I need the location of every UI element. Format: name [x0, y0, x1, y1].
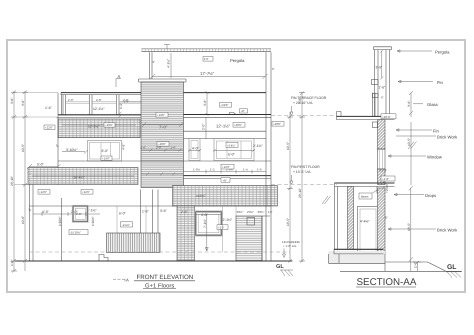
balcony opening extension lines — [117, 206, 146, 233]
interior left wall hatched — [348, 186, 354, 249]
svg-text:23'-10": 23'-10" — [298, 188, 302, 198]
break mark on section dim line — [408, 142, 417, 150]
extension line parapet left — [14, 93, 58, 261]
svg-text:13'-5": 13'-5" — [407, 223, 411, 231]
svg-text:4'-4½": 4'-4½" — [360, 220, 370, 224]
parking dashed level line — [29, 251, 290, 253]
sheet border frame — [7, 40, 465, 292]
svg-text:10'-5": 10'-5" — [21, 144, 25, 152]
terrace slab right — [184, 114, 272, 116]
svg-text:+12'6": +12'6" — [82, 190, 90, 194]
svg-text:12'-1½": 12'-1½" — [88, 124, 100, 128]
section cut marker A (top) — [116, 79, 121, 88]
svg-text:5'-0": 5'-0" — [37, 163, 45, 167]
svg-text:SECTION-AA: SECTION-AA — [357, 277, 417, 288]
tower level box +19 — [156, 113, 168, 118]
svg-text:9": 9" — [153, 60, 156, 64]
fin below slab — [373, 122, 378, 128]
section door — [358, 207, 379, 253]
svg-text:A: A — [118, 74, 121, 79]
svg-text:+2'0": +2'0" — [218, 226, 224, 230]
porch columns below tower — [141, 190, 159, 234]
antenna mark above beam — [164, 45, 170, 50]
dim 5'-0 left — [27, 164, 61, 169]
upper brick band left — [58, 119, 140, 138]
garage shutter — [236, 216, 262, 261]
svg-text:13'-5": 13'-5" — [286, 218, 290, 226]
first floor window left — [88, 141, 122, 162]
right wall of elevation — [266, 52, 271, 261]
svg-text:1'-0½: 1'-0½ — [193, 168, 201, 172]
svg-text:1'-6": 1'-6" — [414, 262, 418, 268]
centre brick band over entrance — [173, 186, 278, 207]
svg-text:-16'-4¼": -16'-4¼" — [72, 176, 85, 180]
svg-text:9": 9" — [56, 144, 60, 147]
first floor slab (section) — [335, 182, 395, 184]
svg-text:+8": +8" — [241, 109, 245, 113]
leader label Window — [388, 155, 426, 158]
svg-text:1'6": 1'6" — [268, 210, 273, 214]
svg-text:2'-0": 2'-0" — [202, 124, 206, 130]
terrace slab left — [58, 114, 141, 116]
boxed label left edge of band — [44, 125, 55, 129]
level box -15'10 — [69, 230, 88, 235]
first floor slab right — [184, 175, 272, 177]
svg-text:1'6": 1'6" — [204, 57, 209, 61]
tower level box +20 — [157, 142, 169, 147]
mid band boxed labels — [38, 190, 50, 195]
right terrace band dim 12'-1 1/2 — [205, 117, 207, 138]
svg-text:1'-2: 1'-2 — [210, 168, 215, 172]
middle dimension line a — [287, 112, 293, 263]
svg-text:+22'0": +22'0" — [221, 103, 229, 107]
svg-text:3'0½": 3'0½" — [237, 210, 244, 214]
ground dim row — [33, 212, 100, 216]
left ground wall — [30, 185, 62, 262]
wall fin 2 — [373, 94, 379, 98]
svg-text:6'-0": 6'-0" — [228, 153, 236, 157]
svg-text:Fin: Fin — [437, 80, 443, 85]
svg-text:Pergola: Pergola — [435, 50, 450, 55]
svg-text:4'-1½": 4'-1½" — [167, 59, 171, 68]
svg-text:2'-0": 2'-0" — [96, 98, 102, 102]
wall inner dim 3'-0 — [380, 50, 383, 80]
svg-text:1'-6": 1'-6" — [142, 210, 150, 214]
svg-text:9": 9" — [272, 67, 275, 71]
ground floor lintel line — [29, 205, 271, 207]
svg-text:4'-0": 4'-0" — [201, 213, 209, 217]
svg-text:1'-6": 1'-6" — [379, 86, 387, 90]
first floor window right A — [189, 139, 200, 161]
GL hatch section — [446, 272, 461, 278]
svg-text:9": 9" — [28, 208, 32, 211]
GL hatch elevation — [280, 270, 293, 276]
svg-text:Drops: Drops — [425, 193, 436, 198]
svg-text:2'-1½": 2'-1½" — [223, 218, 233, 222]
level box +2'0 — [381, 176, 395, 181]
svg-text:12'-1½": 12'-1½" — [216, 124, 231, 129]
svg-text:3'-0": 3'-0" — [376, 66, 384, 70]
tower pane dim row 2'-6 2'-0 2'-6 — [142, 149, 184, 152]
first floor left wall edges — [58, 93, 62, 185]
svg-text:17'-7½": 17'-7½" — [200, 71, 215, 76]
svg-text:FIN.TERRACE FLOOR: FIN.TERRACE FLOOR — [291, 96, 327, 100]
slab drop profile — [230, 113, 237, 115]
leader label Glass — [413, 103, 423, 105]
svg-text:3'0¾": 3'0¾" — [258, 210, 265, 214]
wall below terrace hatched — [378, 120, 386, 150]
svg-text:23'-10": 23'-10" — [10, 176, 14, 186]
sill line full width — [58, 160, 271, 162]
svg-text:4'-0": 4'-0" — [192, 147, 200, 151]
ground small window — [73, 206, 88, 222]
leader label Drops — [394, 193, 424, 196]
leader label Brick Work 2 — [388, 228, 436, 231]
boxed level label near pergola — [203, 57, 213, 62]
svg-text:1'-6": 1'-6" — [45, 106, 53, 110]
section pergola bar — [374, 47, 392, 50]
window dim 3'-10 1/2 — [62, 150, 88, 154]
svg-text:1'10½": 1'10½" — [91, 216, 95, 226]
terrace slab (section) — [337, 115, 395, 117]
natural ground line — [340, 270, 462, 272]
tower dim 7'-0 — [142, 123, 183, 128]
left outer dimension line — [11, 91, 17, 273]
right wall ground floor hatched — [378, 188, 386, 254]
parking level line — [385, 261, 428, 263]
svg-text:+2'-0": +2'-0" — [382, 177, 389, 181]
svg-text:Brick Work: Brick Work — [437, 228, 458, 233]
svg-text:x16⅛": x16⅛" — [196, 194, 206, 198]
section marker A (bottom) — [113, 279, 125, 281]
right terrace parapet dim — [206, 91, 209, 116]
svg-text:FRONT ELEVATION: FRONT ELEVATION — [137, 274, 194, 281]
svg-text:+ 23'-10" LVL: + 23'-10" LVL — [293, 101, 313, 105]
first floor window right B — [214, 139, 254, 161]
section wall upper (terrace floor parapet wall) — [375, 50, 390, 117]
svg-text:6'-0": 6'-0" — [119, 212, 127, 216]
svg-text:FIN.FIRST FLOOR: FIN.FIRST FLOOR — [291, 165, 320, 169]
svg-text:2'-0": 2'-0" — [68, 98, 74, 102]
svg-text:GL: GL — [276, 264, 284, 270]
left brick pillar ground — [177, 206, 195, 261]
tower striped cladding — [141, 82, 184, 188]
svg-text:1'-9": 1'-9" — [119, 103, 123, 109]
svg-text:Glass: Glass — [427, 102, 438, 107]
pergola left post — [150, 52, 153, 79]
tower cap — [139, 79, 187, 82]
svg-text:1'-9": 1'-9" — [124, 100, 130, 104]
svg-text:4'-3": 4'-3" — [42, 210, 50, 214]
beam under slab — [359, 193, 372, 199]
leader label Fin 1 — [398, 80, 433, 83]
svg-text:-4'4½": -4'4½" — [122, 223, 130, 227]
dim 13'-5 — [409, 186, 413, 271]
svg-text:Fin: Fin — [433, 129, 439, 134]
garage vent — [247, 218, 255, 226]
right parapet top rail — [184, 92, 267, 94]
pergola rafter ticks — [142, 49, 270, 52]
svg-text:-15'10½": -15'10½" — [70, 231, 81, 235]
svg-text:+14'6": +14'6" — [102, 157, 110, 161]
svg-text:2'-0": 2'-0" — [76, 212, 82, 216]
svg-text:Window: Window — [427, 155, 443, 160]
window head line right part — [184, 131, 267, 138]
plinth step — [329, 254, 386, 263]
svg-text:3'-10½": 3'-10½" — [66, 148, 78, 152]
balcony railing — [107, 233, 161, 253]
svg-text:+20'6": +20'6" — [105, 123, 113, 127]
svg-text:GL: GL — [447, 264, 456, 271]
svg-text:+22'6": +22'6" — [45, 126, 53, 130]
svg-text:Brick Work: Brick Work — [437, 135, 458, 140]
svg-text:+20'6": +20'6" — [234, 123, 242, 127]
svg-text:+20'0": +20'0" — [273, 122, 281, 126]
svg-text:3'-6": 3'-6" — [160, 209, 168, 213]
svg-text:2'0½": 2'0½" — [247, 210, 254, 214]
section interior left end wall — [335, 186, 338, 249]
dim 1'-6 at plinth — [413, 261, 421, 271]
svg-text:+12'6": +12'6" — [39, 190, 47, 194]
chhajja brick band — [28, 168, 138, 185]
svg-text:+20'-0": +20'-0" — [382, 115, 391, 119]
pergola beam (front elevation) — [142, 49, 272, 52]
svg-text:10'-5": 10'-5" — [286, 142, 290, 150]
svg-text:1'-6": 1'-6" — [10, 260, 14, 266]
glass railing of terrace (section) — [373, 93, 376, 117]
svg-text:+19'0": +19'0" — [157, 113, 165, 117]
svg-text:A: A — [126, 278, 129, 283]
left parapet posts — [63, 95, 119, 115]
svg-text:7'-1½": 7'-1½" — [203, 219, 207, 228]
svg-text:12'-1½": 12'-1½" — [93, 107, 105, 111]
svg-text:7'-0": 7'-0" — [159, 125, 168, 130]
svg-text:2'-6": 2'-6" — [171, 146, 177, 150]
first floor dashed level — [271, 183, 337, 185]
glass height dim 3'-6 — [409, 91, 413, 117]
svg-text:1'10½": 1'10½" — [58, 216, 62, 226]
svg-text:+8": +8" — [223, 178, 227, 182]
svg-text:6'-0": 6'-0" — [102, 149, 110, 153]
plinth fill — [329, 251, 386, 263]
svg-text:2'-1½": 2'-1½" — [253, 144, 263, 148]
leader label Brick Work 1 — [396, 135, 436, 137]
svg-text:+2'0½": +2'0½" — [385, 183, 389, 193]
svg-text:1'-4: 1'-4 — [243, 168, 248, 172]
leader label Pergola (section) — [397, 50, 432, 53]
elevation right level box — [272, 122, 284, 127]
ground slope — [428, 262, 447, 271]
dim 17'-7 1/2 line — [150, 74, 268, 79]
svg-text:10'-5": 10'-5" — [407, 138, 411, 146]
left parapet top rail — [61, 92, 141, 94]
dim 4'-1 1/2 vertical by tower — [170, 53, 172, 78]
svg-text:+12'6": +12'6" — [222, 165, 230, 169]
break mark between views — [322, 196, 331, 204]
svg-text:+5'4½": +5'4½" — [227, 143, 236, 147]
wall below window hatched — [378, 169, 386, 185]
svg-text:9"1'-3": 9"1'-3" — [379, 169, 387, 173]
ground line GL — [15, 260, 292, 262]
svg-text:3'-6": 3'-6" — [407, 101, 411, 107]
plinth right face — [384, 254, 386, 271]
right band dim row — [184, 170, 267, 174]
floor slab of section — [334, 248, 384, 250]
middle dimension line b — [299, 92, 305, 263]
beam drop profile — [377, 186, 384, 198]
ground floor window over parking — [196, 212, 222, 236]
dim 10'-5 right of wall — [410, 122, 412, 185]
svg-text:9": 9" — [381, 96, 384, 100]
svg-text:Pergola: Pergola — [230, 58, 245, 63]
brick band dim text — [62, 124, 136, 126]
left inner dimension line — [22, 91, 28, 272]
svg-text:10'-6": 10'-6" — [21, 216, 25, 224]
svg-text:2'-6": 2'-6" — [141, 146, 147, 150]
svg-text:3'-6": 3'-6" — [21, 100, 25, 106]
svg-text:3'-6": 3'-6" — [10, 98, 14, 104]
terrace dashed level — [271, 114, 336, 116]
wall fin 1 — [372, 80, 379, 85]
level box +20'-0 terrace — [381, 114, 396, 119]
left parapet glass rails — [66, 102, 142, 103]
tower lower tick line — [141, 173, 183, 176]
svg-text:1'-6: 1'-6 — [257, 168, 262, 172]
svg-text:4'-6": 4'-6" — [122, 144, 126, 150]
svg-text:2'-0": 2'-0" — [156, 146, 162, 150]
svg-text:Beam: Beam — [361, 195, 369, 199]
svg-text:2'-6": 2'-6" — [181, 210, 189, 214]
svg-text:+ 13'-5" LVL: + 13'-5" LVL — [293, 170, 311, 174]
dim extension lines beside window — [223, 206, 237, 252]
leader label Fin 2 — [396, 129, 432, 132]
svg-text:3'-6": 3'-6" — [203, 100, 207, 106]
window in section wall — [378, 149, 386, 169]
entry steps — [99, 255, 108, 262]
